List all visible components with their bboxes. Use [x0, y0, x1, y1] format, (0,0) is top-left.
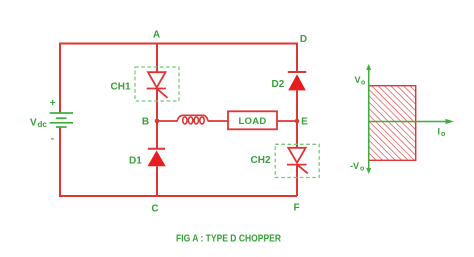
svg-text:A: A	[153, 30, 160, 41]
svg-text:o: o	[360, 165, 364, 172]
label Vdc	[30, 118, 47, 130]
svg-text:CH2: CH2	[251, 155, 271, 166]
graph vertical axis	[366, 64, 371, 174]
wire D to D2	[296, 43, 298, 73]
graph horizontal axis Io	[369, 119, 454, 124]
CH2 dashed box	[275, 144, 319, 177]
CH1 dashed box	[135, 67, 179, 101]
load box LOAD	[228, 111, 277, 129]
svg-text:C: C	[151, 204, 158, 215]
svg-text:D: D	[300, 34, 307, 45]
label -Vo	[350, 161, 364, 173]
wire E to CH2	[296, 121, 298, 148]
wire CH2 to F	[296, 165, 298, 196]
diode D1	[148, 149, 166, 167]
battery Vdc	[50, 113, 73, 127]
wire D1 to C	[156, 166, 158, 196]
svg-text:V: V	[355, 75, 361, 85]
thyristor CH2	[287, 148, 308, 174]
label Vo	[355, 75, 366, 87]
svg-text:I: I	[438, 127, 441, 137]
wire LOAD to E	[277, 120, 297, 122]
wire left upper	[59, 43, 61, 114]
svg-text:FIG A : TYPE D CHOPPER: FIG A : TYPE D CHOPPER	[176, 234, 282, 245]
wire top A-D	[60, 43, 297, 45]
svg-text:B: B	[142, 116, 149, 127]
wire CH1 to D1	[156, 89, 158, 149]
svg-text:o: o	[441, 131, 445, 138]
wire left lower	[59, 127, 61, 196]
svg-text:dc: dc	[38, 120, 48, 129]
hatched V-I region	[369, 86, 416, 161]
wire bottom C-F	[59, 195, 297, 197]
svg-text:LOAD: LOAD	[238, 116, 266, 127]
svg-text:CH1: CH1	[111, 81, 131, 92]
svg-text:-V: -V	[350, 161, 359, 171]
wire D2 to E	[296, 90, 298, 121]
svg-text:F: F	[293, 203, 299, 214]
svg-text:D1: D1	[129, 155, 142, 166]
label Io	[438, 127, 446, 139]
junction dot E	[295, 119, 300, 124]
svg-text:-: -	[51, 133, 54, 144]
svg-text:D2: D2	[272, 79, 285, 90]
wire B to inductor	[157, 120, 177, 122]
wire A to CH1	[156, 43, 158, 73]
svg-text:E: E	[301, 117, 308, 128]
wire inductor to LOAD	[208, 120, 228, 122]
svg-text:V: V	[30, 118, 37, 129]
svg-text:o: o	[361, 80, 365, 87]
svg-text:+: +	[50, 98, 56, 109]
thyristor CH1	[147, 72, 168, 98]
junction dot B	[155, 119, 160, 124]
diode D2	[288, 72, 306, 90]
inductor	[177, 115, 208, 124]
